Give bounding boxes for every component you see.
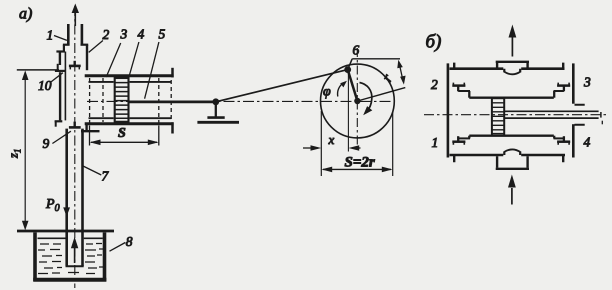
crank pin 6 (dot) [344, 66, 351, 73]
piston rod 5 [129, 101, 216, 104]
valve 10 seat bracket (left) [55, 64, 66, 71]
b: step below valve 3 [554, 91, 564, 98]
b: step above valve 1 [458, 136, 470, 139]
crank center dot [354, 98, 360, 104]
b: bore bottom line [469, 134, 554, 136]
horizontal centerline through cylinder and crank [87, 100, 394, 102]
angle phi arc with arrow [338, 81, 347, 97]
leader line label 7 [82, 166, 110, 184]
piston 4 (hatched) [115, 78, 129, 122]
b: bottom port pedestal [496, 156, 529, 169]
cylinder inner bottom line [89, 117, 172, 119]
cylinder right end flange [171, 68, 172, 134]
label r (rotated) [379, 72, 396, 85]
svg-text:4: 4 [584, 135, 591, 150]
valve box 2 upper left step [56, 52, 65, 66]
label a) [19, 6, 32, 23]
b: bottom flow arrow [508, 175, 516, 205]
b: valve 4 [557, 136, 570, 145]
label S=2r [345, 155, 375, 171]
suction pipe 7 walls [66, 129, 84, 267]
b: horizontal centerline [424, 114, 608, 116]
rotation direction arrow [360, 83, 373, 116]
suction valve 9 [69, 122, 81, 128]
label phi [323, 85, 331, 100]
leader line label 5 [145, 27, 166, 99]
discharge pipe 1 walls [68, 24, 82, 45]
r dimension double arrow [397, 60, 405, 85]
b: right wall lower [572, 124, 575, 157]
rocker support stand [197, 103, 239, 122]
leader line label 3 [106, 27, 127, 78]
svg-text:2: 2 [431, 77, 438, 92]
valve box left wall lower [59, 72, 61, 120]
svg-text:3: 3 [120, 27, 128, 42]
S dimension under cylinder [90, 126, 159, 146]
svg-text:1: 1 [47, 28, 54, 43]
water surface line [38, 237, 103, 239]
svg-text:а): а) [19, 6, 32, 23]
tank 8 top line [17, 230, 114, 233]
b: label 3 [583, 75, 591, 90]
rocker pivot joint (dot) [212, 98, 219, 105]
flange of pipe 1 [63, 45, 88, 52]
crank vertical centerline [356, 48, 358, 152]
b: label 2 [431, 77, 438, 92]
crank pin extension line down [347, 73, 349, 152]
crank circle [321, 64, 395, 138]
leader line label 8 [110, 234, 133, 251]
valve 9 seat bracket (left) [55, 121, 63, 126]
svg-text:4: 4 [138, 27, 145, 42]
cylinder 3 bottom wall [85, 122, 174, 125]
vertical centerline of pump [74, 6, 76, 288]
suction flow arrow inside pipe [71, 237, 78, 263]
valve box inner left line [64, 52, 66, 121]
svg-text:S: S [118, 126, 126, 141]
cylinder bore dashed lines [90, 78, 159, 125]
label b) [426, 32, 442, 53]
crank arm [348, 70, 358, 101]
valve box right wall [86, 45, 88, 70]
b: label 4 [584, 135, 591, 150]
label P0 with down arrow [45, 195, 70, 217]
b: right wall upper [572, 63, 575, 103]
tank 8 walls [33, 233, 106, 282]
r dimension lower line [357, 88, 405, 101]
b: bottom chamber line with valve cup [450, 149, 566, 162]
cylinder inner top line [89, 81, 172, 83]
b: rod gland stubs [575, 105, 585, 125]
svg-text:x: x [328, 132, 335, 147]
b: top chamber line with valve cup [450, 63, 565, 75]
label 6 [353, 43, 360, 58]
svg-text:б): б) [426, 32, 442, 53]
b: valve 1 [452, 136, 465, 145]
discharge valve 10 [69, 61, 81, 70]
b: piston (hatched) [492, 98, 504, 135]
b: top port pedestal [496, 62, 529, 68]
r dimension upper line [352, 58, 400, 60]
svg-text:10: 10 [38, 78, 52, 93]
b: valve 3 [557, 83, 570, 92]
water hatch dashes [38, 244, 103, 274]
svg-text:S=2r: S=2r [345, 155, 375, 171]
svg-text:9: 9 [43, 136, 50, 151]
label x [328, 132, 335, 147]
label z1 (rotated) [7, 149, 23, 159]
cylinder 3 top wall [85, 74, 174, 77]
valve box lower right wall [85, 125, 87, 131]
leader line label 9 [43, 131, 71, 151]
b: step below valve 2 [458, 91, 470, 98]
b: valve 2 [452, 83, 465, 92]
leader line label 1 [47, 28, 67, 43]
discharge flow arrow (top) [72, 4, 79, 27]
svg-text:2: 2 [103, 27, 110, 42]
b: step above valve 4 [554, 136, 564, 139]
cylinder foot ledge [81, 130, 100, 132]
leader line label 2 [89, 27, 110, 52]
label S [118, 126, 126, 141]
leader line label 10 [38, 73, 63, 93]
svg-text:φ: φ [323, 85, 331, 100]
svg-text:8: 8 [126, 234, 133, 249]
svg-text:5: 5 [159, 27, 166, 42]
leader line label 4 [129, 27, 145, 78]
x dimension [303, 111, 361, 176]
b: left wall [447, 63, 450, 157]
S=2r dimension [321, 112, 392, 176]
b: bore top line [469, 96, 554, 98]
z1 dimension [17, 70, 59, 231]
rocker lever to crank pin [216, 70, 348, 102]
svg-text:3: 3 [583, 75, 591, 90]
b: piston rod double line [504, 111, 602, 124]
crank arm extension to apex [348, 59, 353, 70]
b: top flow arrow [509, 25, 517, 57]
svg-text:1: 1 [432, 135, 439, 150]
b: label 1 [432, 135, 439, 150]
svg-text:6: 6 [353, 43, 360, 58]
